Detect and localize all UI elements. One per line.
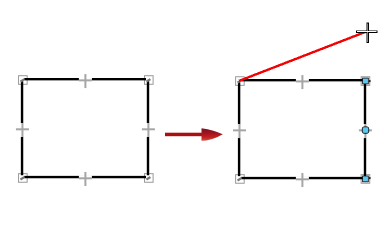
right rectangle midpoint plus left: [233, 124, 246, 138]
right rectangle cyan mid handle right: [362, 126, 369, 133]
red arrow shaft: [165, 133, 203, 137]
left rectangle top edge: [24, 78, 146, 80]
left rectangle corner handle TR: [145, 76, 154, 85]
right rectangle corner handle BR outer: [361, 175, 370, 184]
right rectangle cyan corner handle BR: [362, 176, 369, 183]
right rectangle corner slash TL: [238, 80, 242, 82]
right rectangle corner handle TR outer: [361, 77, 370, 86]
left rectangle corner handle BR: [145, 174, 154, 183]
right rectangle corner handle BL: [236, 175, 245, 184]
right rectangle midpoint plus right: [359, 124, 372, 138]
left rectangle right edge: [147, 81, 149, 175]
left rectangle midpoint plus right: [142, 123, 155, 137]
red arrow head: [202, 128, 223, 141]
left rectangle corner slash TR: [146, 79, 150, 81]
right rectangle bottom edge: [241, 177, 365, 179]
red drag line: [239, 32, 365, 81]
right rectangle right edge: [364, 80, 366, 178]
left rectangle left edge: [21, 81, 23, 175]
left rectangle bottom edge: [24, 176, 146, 178]
right rectangle top edge overshoot nub: [369, 80, 371, 82]
left rectangle midpoint plus bottom: [79, 172, 92, 186]
left rectangle midpoint plus top: [79, 74, 92, 88]
left rectangle corner handle TL: [19, 76, 28, 85]
right rectangle midpoint plus top: [296, 75, 309, 89]
right rectangle corner slash BL: [238, 178, 242, 180]
right rectangle top edge: [241, 79, 365, 81]
right rectangle bottom edge overshoot nub: [369, 177, 371, 179]
right rectangle cyan corner handle TR: [362, 78, 369, 85]
left rectangle corner slash BR: [146, 177, 150, 179]
left rectangle corner slash BL: [20, 177, 24, 179]
right rectangle left edge: [238, 82, 240, 176]
left rectangle corner slash TL: [20, 79, 24, 81]
left rectangle midpoint plus left: [16, 123, 29, 137]
crosshair cursor: [357, 23, 378, 43]
right rectangle corner handle TL: [236, 77, 245, 86]
right rectangle midpoint plus bottom: [296, 173, 309, 187]
left rectangle corner handle BL: [19, 174, 28, 183]
